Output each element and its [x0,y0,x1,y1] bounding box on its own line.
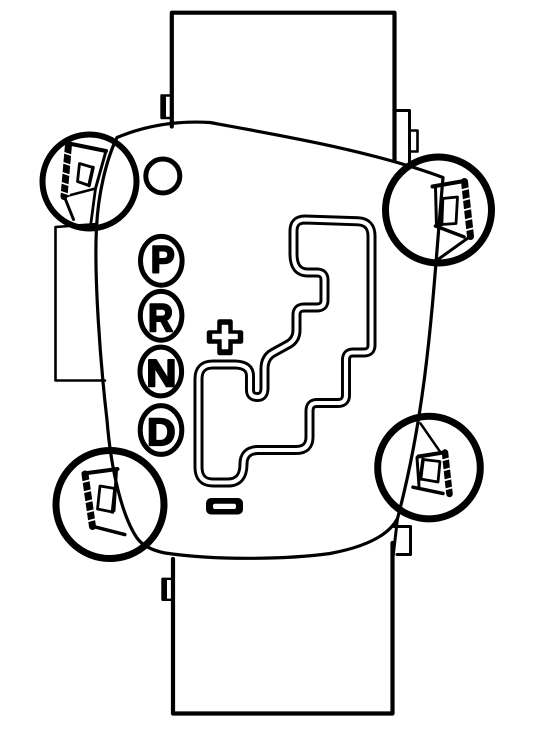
clip bottom-left [81,469,125,535]
letter N [149,360,174,386]
clip top-right [433,181,475,261]
callout circle bottom-right [378,416,481,519]
shift gate outline (double line) [199,220,372,483]
bottom rectangle left tab [162,579,173,600]
bottom rectangle right tab [394,527,411,555]
minus symbol [206,498,243,515]
callout circle top-right [386,157,492,263]
left bracket [56,224,106,381]
bump circle on plate [146,159,180,193]
letter D [150,419,174,445]
callout circle bottom-left [56,451,164,559]
plate right edge lower extension [393,519,398,560]
clip bottom-right [413,424,454,495]
bottom console rectangle [173,543,393,714]
top rectangle right tab [395,111,410,164]
top rectangle left tab [161,96,172,119]
plus symbol [209,322,241,354]
clip top-left [60,144,106,223]
callout circle top-left [43,135,137,229]
N oval [140,347,182,396]
letter P [153,246,173,272]
shift plate outline [96,122,443,558]
top rectangle right nub [410,131,418,152]
P oval [141,236,183,285]
top console opening rectangle [172,13,395,161]
letter R [150,304,172,331]
R oval [140,291,182,340]
D oval [140,406,182,455]
